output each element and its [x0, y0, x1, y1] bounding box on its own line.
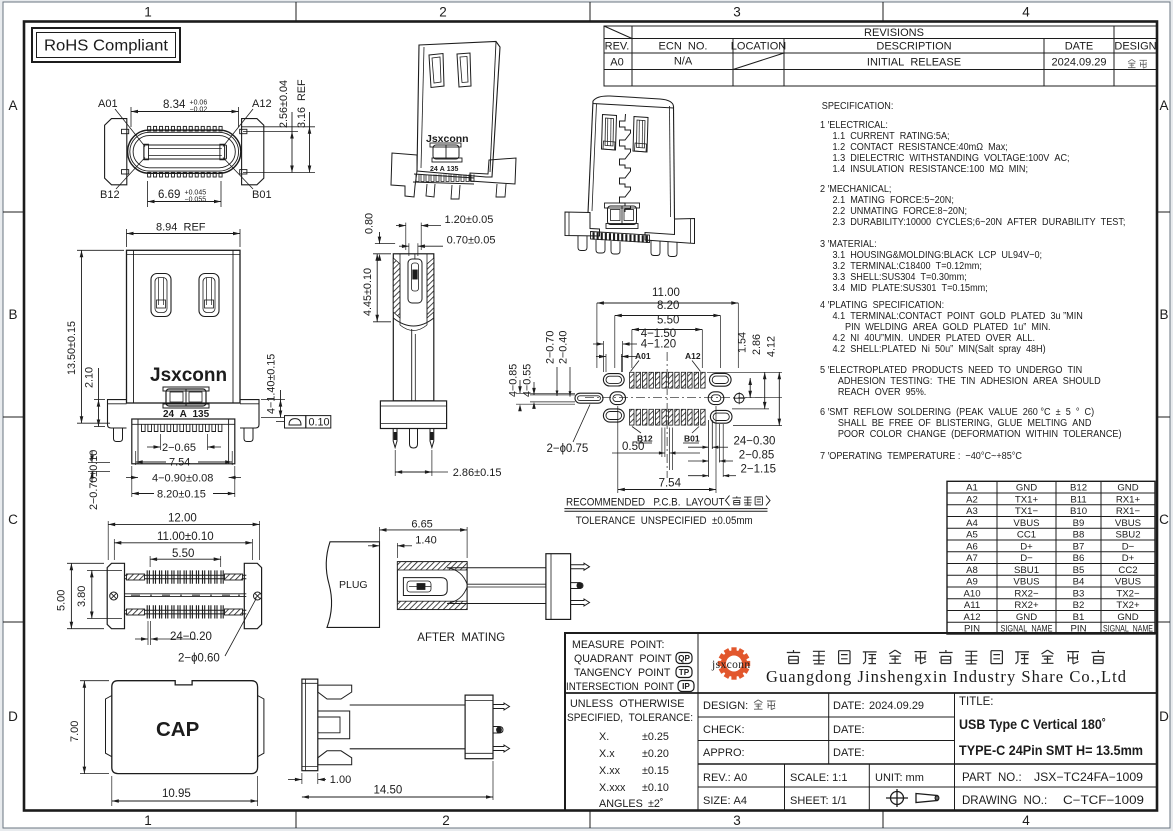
- svg-text:3: 3: [733, 5, 741, 20]
- iso front: body: [417, 42, 500, 178]
- cap side: pins: [493, 703, 510, 710]
- dim 7.54: [135, 451, 137, 465]
- svg-text:B: B: [8, 307, 17, 322]
- dim 8.20: [615, 315, 721, 317]
- top view: left mounting wing: [105, 119, 127, 185]
- top view: shell stadium: [128, 130, 241, 173]
- cap body: [112, 681, 258, 774]
- dim 13.50±0.15: [77, 249, 124, 251]
- dim 2.56±0.04: [243, 131, 298, 133]
- svg-text:PIN WELDING AREA GOLD PLAT: PIN WELDING AREA GOLD PLATED 1u” MIN.: [845, 322, 1051, 334]
- svg-text:3.4 MID PLATE:SUS301 T=0.15: 3.4 MID PLATE:SUS301 T=0.15mm;: [833, 283, 988, 295]
- svg-text:5.50: 5.50: [172, 548, 194, 560]
- svg-text:24 A 135: 24 A 135: [430, 166, 459, 173]
- designer name: [754, 700, 763, 709]
- svg-text:6 ′SMT REFLOW SOLDERING (PE: 6 ′SMT REFLOW SOLDERING (PEAK VALUE 260 …: [820, 407, 1094, 419]
- svg-text:C−TCF−1009: C−TCF−1009: [1063, 795, 1144, 807]
- dim 2.10: [94, 399, 105, 401]
- svg-text:2024.09.29: 2024.09.29: [869, 700, 924, 712]
- svg-text:8.20±0.15: 8.20±0.15: [157, 489, 206, 501]
- svg-text:A0: A0: [610, 57, 623, 69]
- svg-text:CHECK:: CHECK:: [703, 724, 745, 736]
- dim 0.70±0.05: [408, 243, 410, 256]
- svg-text:1.1 CURRENT RATING:5A;: 1.1 CURRENT RATING:5A;: [833, 131, 950, 143]
- svg-text:A3: A3: [966, 506, 978, 517]
- svg-text:VBUS: VBUS: [1115, 518, 1141, 529]
- svg-text:24 A 135: 24 A 135: [163, 409, 210, 420]
- svg-text:JSX−TC24FA−1009: JSX−TC24FA−1009: [1034, 772, 1143, 784]
- svg-text:1.40: 1.40: [415, 535, 436, 547]
- dim 11.00: [597, 302, 738, 304]
- svg-text:RECOMMENDED P.C.B. LAYOUT: RECOMMENDED P.C.B. LAYOUT: [566, 497, 725, 509]
- svg-text:0.50: 0.50: [622, 441, 644, 453]
- svg-text:1.20±0.05: 1.20±0.05: [445, 214, 494, 226]
- front view: right foot: [244, 428, 253, 442]
- dim 2-0.85: [703, 459, 709, 462]
- svg-text:4: 4: [1022, 5, 1030, 20]
- revisions table: [604, 26, 1157, 86]
- svg-text:2.86±0.15: 2.86±0.15: [453, 467, 502, 479]
- svg-text:1.3 DIELECTRIC WITHSTANDING: 1.3 DIELECTRIC WITHSTANDING VOLTAGE:100V…: [833, 153, 1070, 165]
- svg-text:DESIGN:: DESIGN:: [703, 700, 748, 712]
- svg-text:B01: B01: [252, 189, 272, 201]
- top view: smt pads bottom row: [148, 172, 151, 177]
- dim 5.50: [632, 329, 702, 331]
- svg-text:VBUS: VBUS: [1013, 518, 1039, 529]
- cap side: top bracket: [318, 685, 352, 699]
- side view: base flange: [380, 401, 446, 429]
- svg-text:TX1+: TX1+: [1015, 494, 1039, 505]
- svg-text:A7: A7: [966, 553, 978, 564]
- svg-text:B8: B8: [1073, 530, 1085, 541]
- svg-text:GND: GND: [1016, 483, 1037, 494]
- svg-text:5.50: 5.50: [657, 315, 679, 327]
- iso back: bottom clip: [608, 206, 637, 225]
- bottom view: center seam: [125, 593, 247, 595]
- svg-text:4−1.20: 4−1.20: [641, 339, 677, 351]
- bottom view: left end block: [107, 563, 124, 628]
- pcb: bottom pad row: [630, 409, 634, 425]
- svg-text:USB Type C Vertical 180˚: USB Type C Vertical 180˚: [959, 717, 1106, 733]
- svg-text:POOR COLOR CHANGE (DEFORMAT: POOR COLOR CHANGE (DEFORMATION WITHIN TO…: [838, 429, 1122, 441]
- svg-text:2−1.15: 2−1.15: [741, 464, 777, 476]
- dim 8.34: [130, 107, 132, 127]
- svg-text:±0.15: ±0.15: [642, 765, 669, 777]
- svg-text:INITIAL RELEASE: INITIAL RELEASE: [867, 57, 961, 69]
- svg-text:A: A: [1159, 98, 1168, 113]
- dim 11.00±0.10: [113, 539, 115, 560]
- svg-text:Jsxconn: Jsxconn: [150, 365, 227, 386]
- svg-text:6.69: 6.69: [158, 189, 180, 201]
- svg-text:B: B: [1159, 307, 1168, 322]
- dim 4-1.20: [605, 354, 607, 372]
- dim 24-0.20: [147, 621, 149, 645]
- approval cells: [703, 700, 924, 807]
- svg-text:Guangdong Jinshengxin Industry: Guangdong Jinshengxin Industry Share Co.…: [766, 667, 1127, 686]
- pcb: ext lines top dims: [596, 303, 598, 368]
- svg-text:ECN NO.: ECN NO.: [659, 41, 708, 53]
- svg-text:RoHS Compliant: RoHS Compliant: [44, 38, 169, 55]
- pcb: top pad row: [630, 372, 634, 388]
- svg-text:13.50±0.15: 13.50±0.15: [66, 321, 78, 375]
- svg-text:REV.: REV.: [605, 41, 630, 53]
- svg-text:A12: A12: [685, 351, 701, 361]
- svg-text:DESCRIPTION: DESCRIPTION: [876, 41, 951, 53]
- svg-text:8.34: 8.34: [163, 99, 186, 111]
- svg-text:A10: A10: [963, 588, 980, 599]
- svg-text:3.80: 3.80: [76, 586, 88, 607]
- svg-text:2−ɸ0.60: 2−ɸ0.60: [178, 653, 220, 665]
- iso back: latch slot right: [633, 117, 648, 153]
- front view: body shell: [127, 250, 241, 403]
- svg-text:5.00: 5.00: [56, 590, 68, 611]
- dim 1.00: [301, 773, 303, 784]
- svg-text:±0.25: ±0.25: [642, 731, 669, 743]
- dim 6.65: [379, 527, 381, 539]
- svg-text:7 ′OPERATING TEMPERATURE : −: 7 ′OPERATING TEMPERATURE : −40°C~+85°C: [820, 451, 1022, 463]
- dim 24-0.30: [703, 446, 709, 449]
- svg-text:D: D: [1159, 709, 1169, 724]
- pcb: center pads ext lines: [661, 428, 663, 458]
- svg-text:A12: A12: [252, 98, 272, 110]
- pcb: center lines: [585, 397, 762, 399]
- front view: left wing: [108, 400, 127, 428]
- svg-text:B3: B3: [1073, 588, 1085, 599]
- svg-text:X.: X.: [599, 731, 609, 743]
- pcb: right hole: [734, 393, 744, 403]
- svg-text:2024.09.29: 2024.09.29: [1051, 57, 1106, 69]
- svg-text:D−: D−: [1122, 541, 1135, 552]
- svg-text:GND: GND: [1117, 483, 1138, 494]
- top view: smt pads top row: [148, 126, 151, 131]
- svg-text:±2˚: ±2˚: [648, 798, 664, 810]
- dim 5.50: [149, 556, 151, 567]
- svg-text:2: 2: [439, 5, 447, 20]
- caption chinese: [733, 496, 742, 505]
- svg-text:AFTER MATING: AFTER MATING: [417, 632, 505, 644]
- svg-text:4.45±0.10: 4.45±0.10: [362, 268, 374, 316]
- svg-text:3.16 REF: 3.16 REF: [296, 79, 308, 128]
- svg-text:−0.02: −0.02: [190, 107, 208, 114]
- svg-text:4−0.85: 4−0.85: [507, 364, 519, 397]
- svg-text:2−0.65: 2−0.65: [162, 442, 196, 454]
- svg-text:INTERSECTION POINT: INTERSECTION POINT: [566, 681, 674, 693]
- svg-text:2.2 UNMATING FORCE:8~20N;: 2.2 UNMATING FORCE:8~20N;: [833, 206, 968, 218]
- svg-text:2.86: 2.86: [751, 334, 763, 355]
- svg-text:1 ′ELECTRICAL:: 1 ′ELECTRICAL:: [820, 120, 888, 132]
- svg-text:CC1: CC1: [1017, 530, 1036, 541]
- svg-text:A1: A1: [966, 483, 978, 494]
- svg-text:4−0.55: 4−0.55: [521, 364, 533, 397]
- pcb: right through pad: [708, 392, 724, 405]
- svg-text:3.3 SHELL:SUS304 T=0.30mm;: 3.3 SHELL:SUS304 T=0.30mm;: [833, 272, 967, 284]
- svg-text:0.80: 0.80: [364, 213, 376, 234]
- svg-text:B6: B6: [1073, 553, 1085, 564]
- svg-text:A5: A5: [966, 530, 978, 541]
- svg-text:DATE:: DATE:: [833, 747, 865, 759]
- pcb: corner oval pads: [603, 374, 624, 386]
- bottom view: bottom teeth: [147, 605, 223, 618]
- svg-text:4.2 NI 40U”MIN. UNDER PLAT: 4.2 NI 40U”MIN. UNDER PLATED OVER ALL.: [833, 333, 1036, 345]
- dim 4-1.40±0.15: [261, 399, 285, 401]
- iso back: body: [588, 101, 593, 213]
- svg-text:SIZE: A4: SIZE: A4: [703, 795, 747, 807]
- receptacle shell section: [397, 562, 467, 610]
- right pads ext lines: [708, 420, 710, 477]
- svg-text:B10: B10: [1070, 506, 1087, 517]
- svg-text:4 ′PLATING SPECIFICATION:: 4 ′PLATING SPECIFICATION:: [820, 300, 944, 312]
- svg-text:4.1 TERMINAL:CONTACT POINT: 4.1 TERMINAL:CONTACT POINT GOLD PLATED 3…: [833, 311, 1083, 323]
- pins right: [571, 563, 590, 570]
- specification text: [820, 101, 1125, 463]
- iso front: right wing: [470, 158, 516, 184]
- svg-text:A01: A01: [635, 351, 651, 361]
- plug body with break line: [326, 542, 379, 628]
- projection symbols: [886, 789, 939, 807]
- iso front: teeth: [416, 175, 474, 182]
- svg-text:2.3 DURABILITY:10000 CYCLES;: 2.3 DURABILITY:10000 CYCLES;6~20N AFTER …: [833, 217, 1126, 229]
- front view: right wing: [240, 400, 259, 428]
- svg-text:QP: QP: [678, 654, 690, 663]
- svg-text:B1: B1: [1073, 612, 1085, 623]
- iso back: latch slot left: [602, 115, 617, 151]
- svg-text:12.00: 12.00: [168, 513, 197, 525]
- dim 4-0.90±0.08: [131, 476, 138, 480]
- bottom view: right end block: [244, 563, 261, 628]
- svg-text:SPECIFICATION:: SPECIFICATION:: [822, 101, 894, 113]
- side view: inner contact slot: [408, 259, 422, 303]
- bottom view: right hole: [254, 592, 262, 600]
- svg-text:CAP: CAP: [156, 718, 199, 741]
- svg-text:2 ′MECHANICAL;: 2 ′MECHANICAL;: [820, 184, 891, 196]
- dim 2-0.70±0.10: [88, 462, 110, 464]
- svg-text:TX1−: TX1−: [1015, 506, 1039, 517]
- side view: body: [393, 254, 434, 401]
- svg-text:B7: B7: [1073, 541, 1085, 552]
- svg-text:CC2: CC2: [1118, 565, 1137, 576]
- svg-text:TYPE-C 24Pin SMT H= 13.5mm: TYPE-C 24Pin SMT H= 13.5mm: [959, 743, 1143, 759]
- svg-text:7.00: 7.00: [69, 721, 81, 742]
- bottom view: top contact rail: [125, 574, 247, 576]
- svg-text:B4: B4: [1073, 577, 1085, 588]
- dim 1.40: [379, 539, 381, 543]
- svg-text:2.10: 2.10: [84, 367, 96, 388]
- svg-text:X.xx: X.xx: [599, 765, 621, 777]
- iso back: center zigzag seam: [620, 114, 631, 212]
- svg-text:SBU2: SBU2: [1115, 530, 1140, 541]
- svg-text:6.65: 6.65: [411, 519, 432, 531]
- svg-text:A11: A11: [964, 600, 980, 611]
- svg-text:SBU1: SBU1: [1014, 565, 1039, 576]
- svg-text:B11: B11: [1070, 494, 1086, 505]
- svg-text:SCALE: 1:1: SCALE: 1:1: [790, 772, 847, 784]
- svg-text:1: 1: [144, 5, 152, 20]
- svg-text:2: 2: [442, 813, 450, 828]
- svg-text:2−0.40: 2−0.40: [558, 331, 570, 364]
- svg-text:4: 4: [1022, 813, 1030, 828]
- dim 2-1.15: [703, 474, 709, 477]
- iso front: clip: [433, 145, 459, 159]
- receptacle inner contact: [403, 578, 447, 596]
- title block frame: [565, 633, 1157, 810]
- svg-text:REVISIONS: REVISIONS: [864, 27, 924, 39]
- svg-text:X.xxx: X.xxx: [599, 782, 626, 794]
- svg-text:±0.10: ±0.10: [642, 782, 669, 794]
- side view: shell wall hatching: [393, 258, 400, 318]
- svg-text:TX2−: TX2−: [1116, 588, 1140, 599]
- svg-text:A: A: [8, 98, 17, 113]
- svg-text:X.x: X.x: [599, 748, 615, 760]
- iso back: top face: [593, 96, 674, 108]
- svg-text:B12: B12: [1070, 483, 1087, 494]
- svg-text:+0.045: +0.045: [185, 190, 207, 197]
- cap side: bottom bracket: [318, 751, 352, 765]
- svg-text:B5: B5: [1073, 565, 1085, 576]
- cap side: left plate: [302, 679, 318, 771]
- svg-text:B01: B01: [684, 434, 700, 444]
- iso back: teeth strip: [591, 232, 650, 243]
- svg-text:8.20: 8.20: [657, 300, 679, 312]
- svg-text:1.00: 1.00: [330, 774, 351, 786]
- svg-text:10.95: 10.95: [162, 788, 191, 800]
- svg-text:1.4 INSULATION RESISTANCE:10: 1.4 INSULATION RESISTANCE:100 MΩ MIN;: [833, 164, 1029, 176]
- base block: [546, 554, 571, 620]
- svg-text:3: 3: [733, 813, 741, 828]
- svg-text:UNIT: mm: UNIT: mm: [875, 772, 924, 784]
- svg-text:C: C: [8, 512, 18, 527]
- svg-text:+0.06: +0.06: [190, 100, 208, 107]
- cap side clips: [106, 696, 112, 757]
- dim 4-1.50: [602, 341, 604, 372]
- svg-text:1.54: 1.54: [737, 332, 749, 353]
- svg-text:REACH OVER 95%.: REACH OVER 95%.: [838, 387, 926, 399]
- measure point notes: [566, 639, 674, 693]
- dim 10.95: [111, 776, 113, 806]
- svg-text:7.54: 7.54: [659, 478, 682, 490]
- svg-text:B2: B2: [1073, 600, 1085, 611]
- svg-text:A9: A9: [966, 577, 978, 588]
- top view: right mounting wing: [242, 119, 264, 185]
- front view: contact block: [132, 419, 235, 464]
- svg-text:TOLERANCE UNSPECIFIED ±0.05m: TOLERANCE UNSPECIFIED ±0.05mm: [576, 515, 753, 527]
- svg-text:DATE:: DATE:: [833, 724, 865, 736]
- dim 12.00: [107, 521, 109, 560]
- iso back: left wing: [565, 212, 600, 236]
- svg-text:8.94 REF: 8.94 REF: [156, 222, 206, 234]
- dim 0.50: [659, 451, 665, 454]
- svg-text:D+: D+: [1020, 541, 1033, 552]
- svg-text:APPRO:: APPRO:: [703, 747, 745, 759]
- svg-text:UNLESS OTHERWISE: UNLESS OTHERWISE: [570, 698, 684, 710]
- svg-text:2−ɸ0.75: 2−ɸ0.75: [547, 443, 589, 455]
- dim 2-0.65: [160, 434, 162, 450]
- svg-text:TANGENCY POINT: TANGENCY POINT: [574, 667, 671, 679]
- svg-text:2−0.85: 2−0.85: [739, 449, 775, 461]
- svg-text:DATE:: DATE:: [833, 700, 865, 712]
- svg-text:4−1.40±0.15: 4−1.40±0.15: [266, 354, 278, 414]
- company chinese name: [787, 650, 800, 664]
- top view: side tabs: [122, 129, 129, 133]
- side view: center tongue: [411, 329, 413, 401]
- svg-text:−0.055: −0.055: [185, 197, 207, 204]
- svg-text:D−: D−: [1020, 553, 1033, 564]
- svg-text:ANGLES: ANGLES: [599, 798, 643, 810]
- dim 5.00: [67, 562, 104, 564]
- svg-text:GND: GND: [1016, 612, 1037, 623]
- side view: center peg: [410, 429, 418, 449]
- svg-text:RX1+: RX1+: [1116, 494, 1141, 505]
- front view: left foot: [114, 428, 123, 442]
- svg-text:11.00±0.10: 11.00±0.10: [157, 531, 214, 543]
- svg-text:LOCATION: LOCATION: [731, 41, 786, 53]
- svg-text:TP: TP: [679, 668, 690, 677]
- dim 3.16 REF: [241, 126, 315, 128]
- front view: latch spring right: [199, 274, 219, 317]
- svg-text:A01: A01: [98, 98, 118, 110]
- company logo gear: [718, 647, 750, 679]
- svg-text:24−0.20: 24−0.20: [170, 631, 212, 643]
- svg-text:RX2+: RX2+: [1014, 600, 1039, 611]
- svg-text:SPECIFIED, TOLERANCE:: SPECIFIED, TOLERANCE:: [567, 712, 693, 724]
- pcb: left through pads: [575, 393, 603, 403]
- svg-text:2−0.70: 2−0.70: [545, 331, 557, 364]
- svg-text:jsxconn: jsxconn: [711, 659, 751, 671]
- iso front: left wing: [391, 153, 417, 197]
- svg-text:VBUS: VBUS: [1013, 577, 1039, 588]
- dim 2.86: [764, 372, 766, 409]
- svg-text:GND: GND: [1117, 612, 1138, 623]
- RoHS Compliant box: [32, 28, 180, 62]
- svg-text:SHEET: 1/1: SHEET: 1/1: [790, 795, 847, 807]
- svg-text:D+: D+: [1122, 553, 1135, 564]
- svg-text:11.00: 11.00: [652, 287, 680, 299]
- svg-text:A8: A8: [966, 565, 978, 576]
- svg-text:0.10: 0.10: [309, 416, 330, 428]
- dim 14.50: [492, 761, 494, 800]
- svg-text:2.56±0.04: 2.56±0.04: [278, 80, 290, 128]
- svg-text:2.1 MATING FORCE:5~20N;: 2.1 MATING FORCE:5~20N;: [833, 195, 954, 207]
- svg-text:QUADRANT POINT: QUADRANT POINT: [574, 653, 672, 665]
- svg-text:1.2 CONTACT RESISTANCE:40mΩ: 1.2 CONTACT RESISTANCE:40mΩ Max;: [833, 142, 1008, 154]
- svg-text:TITLE:: TITLE:: [959, 696, 994, 708]
- svg-text:IP: IP: [682, 682, 690, 691]
- svg-text:C: C: [1159, 512, 1169, 527]
- svg-text:A4: A4: [966, 518, 978, 529]
- dim 3.80: [87, 569, 122, 571]
- svg-text:D: D: [8, 709, 18, 724]
- side view: solder legs: [393, 429, 397, 448]
- svg-text:TX2+: TX2+: [1116, 600, 1140, 611]
- bottom view: bottom contact rail: [125, 609, 247, 611]
- svg-text:VBUS: VBUS: [1115, 577, 1141, 588]
- svg-text:2−0.70±0.10: 2−0.70±0.10: [88, 450, 100, 510]
- mated tongue: [447, 567, 546, 569]
- svg-text:B12: B12: [100, 189, 120, 201]
- front view: latch spring left: [151, 274, 171, 317]
- svg-text:0.70±0.05: 0.70±0.05: [447, 235, 496, 247]
- svg-text:B9: B9: [1073, 518, 1085, 529]
- svg-text:A2: A2: [966, 494, 978, 505]
- bottom view: top teeth: [147, 570, 223, 583]
- svg-text:A12: A12: [963, 612, 980, 623]
- dim 6.69: [147, 181, 149, 207]
- svg-text:±0.20: ±0.20: [642, 748, 669, 760]
- svg-text:RX2−: RX2−: [1014, 588, 1039, 599]
- side view: tongue arc: [393, 318, 434, 326]
- iso back: feet: [596, 240, 605, 253]
- cap side: barrel: [350, 704, 465, 706]
- dim 1.20±0.05: [405, 223, 407, 250]
